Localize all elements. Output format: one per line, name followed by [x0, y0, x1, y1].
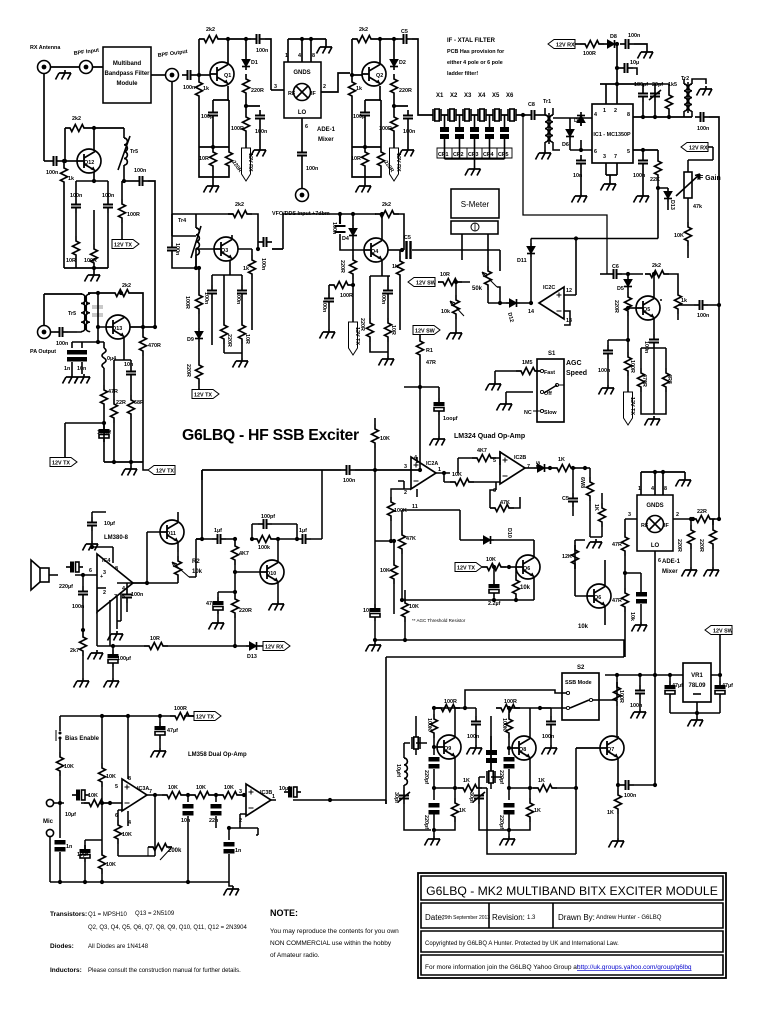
svg-text:D10: D10	[506, 528, 512, 538]
svg-text:100K: 100K	[501, 718, 507, 731]
svg-text:RF: RF	[641, 523, 649, 529]
input wire pin2 from bus	[97, 587, 106, 589]
svg-text:CP2: CP2	[453, 152, 464, 158]
svg-text:All Diodes are 1N4148: All Diodes are 1N4148	[88, 944, 149, 950]
svg-text:8: 8	[664, 486, 667, 492]
emitter caps 100n	[76, 179, 108, 199]
labels CP1-CP5	[437, 148, 512, 158]
svg-text:100k: 100k	[258, 545, 270, 551]
svg-text:100K: 100K	[426, 718, 432, 731]
svg-text:1n: 1n	[235, 848, 241, 854]
capacitor 100n	[51, 327, 77, 347]
multiband bandpass filter module	[103, 47, 151, 103]
svg-text:D11: D11	[517, 258, 527, 264]
svg-text:220R: 220R	[613, 300, 619, 313]
svg-text:VR1: VR1	[691, 673, 703, 679]
resistor 47R	[101, 368, 118, 462]
flag 12V RX	[681, 143, 713, 152]
wire IF takeoff	[523, 115, 607, 274]
svg-text:1K: 1K	[607, 810, 614, 816]
resistor 220R	[232, 594, 252, 646]
svg-text:RX Antenna: RX Antenna	[30, 45, 61, 51]
svg-text:1: 1	[438, 467, 441, 473]
ground	[631, 709, 647, 719]
svg-text:100R: 100R	[184, 296, 190, 309]
svg-text:Q6: Q6	[594, 595, 601, 601]
svg-text:100R: 100R	[444, 699, 457, 705]
svg-text:CP1: CP1	[438, 152, 449, 158]
resistor 220R	[365, 100, 395, 177]
emitter wire + 1K h	[509, 759, 576, 792]
svg-text:You may reproduce the contents: You may reproduce the contents for you o…	[270, 928, 399, 935]
svg-text:Q7: Q7	[607, 747, 614, 753]
flag 12V TX	[186, 712, 221, 721]
svg-text:6: 6	[305, 124, 308, 130]
capacitor C5	[562, 466, 578, 516]
trimmer 30pf	[468, 777, 509, 830]
svg-text:D1: D1	[251, 60, 258, 66]
S2 select wires	[465, 690, 566, 708]
svg-text:10K: 10K	[674, 233, 684, 239]
svg-text:220R: 220R	[251, 88, 264, 94]
capacitor 10k bars	[625, 573, 647, 622]
svg-text:50k: 50k	[472, 286, 483, 292]
resistor 220R	[243, 74, 264, 112]
ground	[399, 147, 415, 157]
svg-text:Inductors:: Inductors:	[50, 967, 82, 974]
svg-text:10R: 10R	[244, 334, 250, 344]
capacitor 100n	[695, 112, 719, 519]
capacitor 100n out	[124, 168, 155, 327]
resistor 220R	[213, 100, 243, 177]
capacitor 1uf right	[297, 470, 322, 544]
ground	[430, 436, 446, 446]
resistor 47R	[612, 532, 629, 588]
svg-text:Q12: Q12	[84, 160, 94, 166]
ground	[465, 166, 481, 176]
svg-text:1k: 1k	[68, 176, 74, 182]
node	[62, 160, 77, 162]
svg-text:100pf: 100pf	[261, 514, 275, 520]
svg-text:2k2: 2k2	[359, 27, 368, 33]
transistor Q11	[147, 512, 184, 552]
ground	[151, 748, 167, 758]
mixer pins 1 4 8	[285, 37, 326, 62]
wire	[51, 66, 79, 68]
ground	[542, 745, 558, 755]
capacitor 100uf	[108, 644, 131, 678]
capacitor 100n	[598, 340, 628, 385]
svg-text:100n: 100n	[380, 292, 386, 304]
resistor 6W8	[579, 468, 594, 537]
diode D6	[553, 112, 592, 150]
IC1 pins 1,2 up to rail	[600, 43, 640, 104]
svg-text:470R: 470R	[641, 374, 647, 387]
wire pin8 row	[633, 116, 692, 118]
svg-text:1M5: 1M5	[522, 360, 533, 366]
capacitor 22n	[209, 795, 222, 828]
svg-text:1: 1	[285, 53, 288, 59]
wire	[151, 74, 166, 76]
svg-text:10k: 10k	[629, 612, 635, 621]
svg-text:10k: 10k	[578, 624, 589, 630]
resistor 6W8 top wire	[575, 539, 585, 541]
svg-text:Mic: Mic	[43, 819, 54, 825]
svg-text:2k2: 2k2	[122, 283, 131, 289]
svg-text:Speed: Speed	[566, 370, 587, 377]
svg-text:Tr5: Tr5	[68, 311, 76, 317]
svg-text:78L09: 78L09	[688, 683, 706, 689]
caps 100n 100n	[203, 285, 217, 345]
svg-text:D13: D13	[247, 654, 257, 660]
diode D7	[566, 118, 592, 150]
resistor 100R	[170, 706, 194, 720]
svg-text:220R: 220R	[226, 334, 232, 347]
emitter wire + 1K h	[434, 758, 487, 792]
svg-text:D2: D2	[399, 60, 406, 66]
flag 12V TX	[192, 389, 219, 399]
flag 12V RX	[548, 40, 580, 49]
svg-text:2k2: 2k2	[206, 27, 215, 33]
base wire	[98, 293, 106, 342]
svg-text:100n: 100n	[331, 222, 337, 234]
svg-text:Mixer: Mixer	[662, 569, 678, 575]
svg-text:Q4: Q4	[371, 249, 378, 255]
svg-text:47µf: 47µf	[206, 601, 217, 607]
diode D8	[604, 34, 619, 48]
Q2 stage: capacitor in	[345, 73, 362, 75]
svg-text:10R: 10R	[390, 325, 396, 335]
svg-text:12V TX: 12V TX	[629, 397, 635, 415]
capacitor 10n	[573, 148, 586, 193]
IC1 MC1350P	[592, 104, 633, 163]
resistor 10K	[482, 557, 516, 571]
flag 12V TX	[455, 563, 482, 572]
flag 12V SW	[705, 626, 734, 678]
ground	[645, 416, 661, 426]
capacitor 100n pin bypass	[117, 583, 147, 612]
resistor 220R	[676, 525, 695, 567]
capacitor 100n	[620, 33, 647, 49]
resistor 220R	[391, 74, 412, 112]
capacitor 100n out	[620, 780, 657, 799]
svg-text:LM358 Dual Op-Amp: LM358 Dual Op-Amp	[188, 752, 247, 758]
10R rail to 12V RX	[97, 612, 246, 646]
svg-text:6: 6	[594, 149, 597, 155]
ground	[601, 181, 617, 191]
svg-text:4K7: 4K7	[239, 551, 249, 557]
capacitor 100n	[182, 70, 196, 91]
ground IC4	[88, 650, 104, 660]
resistor 2k2	[63, 116, 124, 163]
resistor 10K lower	[85, 803, 116, 882]
svg-text:GNDS: GNDS	[293, 70, 310, 76]
flag 12V RX	[260, 642, 290, 651]
resistor 100R	[231, 112, 250, 148]
resistor 10R	[199, 147, 229, 183]
svg-text:IF - XTAL FILTER: IF - XTAL FILTER	[447, 38, 496, 44]
svg-text:D13: D13	[669, 200, 675, 210]
svg-text:1K: 1K	[463, 778, 470, 784]
svg-text:Q9: Q9	[444, 746, 451, 752]
emitter chain	[114, 338, 131, 399]
svg-text:8: 8	[115, 566, 118, 572]
resistor 2k2	[375, 202, 404, 250]
diode D1	[242, 56, 258, 70]
svg-text:3: 3	[404, 464, 407, 470]
svg-text:220pf: 220pf	[498, 815, 504, 829]
svg-text:100n: 100n	[46, 170, 58, 176]
pot 200k	[118, 795, 182, 860]
transformer Tr5b	[68, 293, 90, 332]
svg-text:1ooµf: 1ooµf	[443, 416, 458, 422]
resistor 10K bias mid	[99, 714, 116, 805]
ground	[74, 678, 90, 688]
trimmer 20pf	[649, 82, 663, 117]
svg-text:20pf: 20pf	[652, 82, 663, 88]
svg-text:100p: 100p	[353, 114, 366, 120]
main audio bus y470	[196, 470, 420, 539]
svg-text:X2: X2	[450, 93, 458, 99]
top rail	[491, 708, 551, 771]
wire main bus y657	[386, 640, 624, 804]
svg-text:For more information join the: For more information join the G6LBQ Yaho…	[425, 964, 581, 971]
svg-text:10K: 10K	[64, 764, 74, 770]
wire output	[147, 794, 162, 796]
crystal X5	[492, 93, 501, 121]
ground	[676, 477, 692, 487]
svg-text:10K: 10K	[380, 436, 390, 442]
ground	[500, 836, 516, 846]
svg-text:X6: X6	[506, 93, 514, 99]
diode D5	[617, 276, 632, 292]
svg-text:PA Output: PA Output	[30, 349, 56, 355]
capacitor 1uf left	[196, 528, 237, 544]
ground	[233, 358, 249, 368]
caps 1n 10n	[64, 342, 98, 374]
svg-text:Bandpass Filter: Bandpass Filter	[104, 71, 150, 77]
svg-text:CP3: CP3	[468, 152, 479, 158]
wire collector	[380, 39, 381, 100]
ground	[366, 642, 382, 652]
svg-text:30pf: 30pf	[393, 792, 399, 803]
svg-text:X5: X5	[492, 93, 500, 99]
ground	[379, 356, 395, 366]
svg-text:10k: 10k	[441, 309, 450, 315]
audio wire joins bus	[385, 800, 387, 804]
svg-text:Bias Enable: Bias Enable	[65, 736, 100, 742]
resistor 100K (bias)	[426, 706, 449, 747]
diode D10	[460, 528, 534, 544]
svg-text:3: 3	[628, 512, 631, 518]
svg-text:C5: C5	[401, 29, 408, 35]
ground	[204, 183, 220, 193]
ground	[320, 329, 336, 339]
svg-text:100n: 100n	[256, 48, 268, 54]
crystal X4	[478, 93, 486, 121]
mixer2 IF wire	[673, 512, 693, 521]
speaker	[31, 560, 49, 590]
svg-text:Q8: Q8	[519, 747, 526, 753]
ground	[599, 385, 615, 395]
ground	[356, 183, 372, 193]
svg-text:AGC: AGC	[566, 360, 582, 367]
svg-text:S2: S2	[577, 665, 585, 671]
svg-text:6: 6	[658, 558, 661, 564]
capacitor 100n	[380, 285, 393, 318]
svg-text:4: 4	[594, 112, 597, 118]
capacitor 10uf	[363, 590, 380, 642]
op-amp IC3B	[239, 784, 275, 828]
transistor Q8	[507, 736, 536, 760]
resistor 2k2	[199, 27, 251, 75]
mixer2 pins 1 4 8	[638, 470, 685, 495]
ground	[108, 631, 124, 641]
resistor 47R lower	[612, 588, 629, 657]
svg-text:C8: C8	[528, 102, 535, 108]
ground	[632, 622, 648, 632]
svg-text:220pf: 220pf	[423, 770, 429, 784]
transistor Q5	[626, 296, 660, 320]
svg-text:12V TX: 12V TX	[457, 566, 475, 572]
svg-text:5: 5	[627, 149, 630, 155]
note IF-XTAL FILTER	[447, 38, 505, 77]
resistor 2k2	[88, 283, 134, 297]
capacitor 10pf block	[486, 750, 497, 763]
svg-text:RF: RF	[288, 91, 296, 97]
svg-text:LM324 Quad Op-Amp: LM324 Quad Op-Amp	[454, 433, 525, 440]
svg-text:220R: 220R	[239, 608, 252, 614]
svg-text:Q1 = MPSH10: Q1 = MPSH10	[88, 912, 128, 918]
svg-text:Diodes:: Diodes:	[50, 943, 74, 950]
resistor 2k2	[352, 27, 398, 75]
capacitor 100n out	[678, 300, 721, 319]
svg-text:LM380-8: LM380-8	[104, 535, 129, 541]
svg-text:Q6: Q6	[523, 566, 530, 572]
svg-text:100R: 100R	[340, 293, 353, 299]
capacitor 100n	[255, 110, 267, 147]
svg-text:10k: 10k	[192, 569, 203, 575]
capacitor 100n	[72, 586, 88, 632]
svg-text:1: 1	[638, 486, 641, 492]
ground	[638, 49, 654, 59]
wire RF in	[271, 89, 284, 91]
svg-text:10k: 10k	[520, 585, 531, 591]
capacitor 10uf in	[60, 790, 89, 818]
flag 12V RX	[242, 148, 254, 181]
electrolytic 100uf	[97, 425, 111, 442]
svg-text:S-Meter: S-Meter	[461, 200, 490, 209]
collector out + cap 100n	[232, 235, 283, 270]
svg-text:47µf: 47µf	[167, 728, 178, 734]
svg-text:10K: 10K	[380, 568, 390, 574]
svg-text:ADE-1: ADE-1	[317, 127, 336, 133]
resistor 470R	[638, 348, 655, 414]
svg-text:47µf: 47µf	[672, 683, 683, 689]
capacitor 100n in	[167, 82, 196, 268]
resistor 10K above IC2A	[372, 418, 390, 472]
capacitor 220pf lower	[423, 788, 440, 836]
svg-text:LO: LO	[651, 543, 660, 549]
svg-text:100n: 100n	[134, 168, 146, 174]
resistor 100k feedback	[250, 536, 299, 552]
transformer Tr1	[543, 99, 560, 150]
capacitor 100n	[46, 156, 62, 176]
crystal XT2	[479, 736, 502, 789]
output S3 diode	[525, 461, 552, 472]
svg-text:220R: 220R	[359, 318, 365, 331]
svg-text:4: 4	[122, 586, 125, 592]
svg-text:4: 4	[298, 53, 301, 59]
flag 12V TX	[50, 423, 104, 467]
svg-text:10R: 10R	[440, 272, 450, 278]
svg-text:100n: 100n	[70, 193, 82, 199]
capacitor 220pf lower	[498, 788, 515, 836]
resistor 10K	[444, 472, 496, 486]
transformer Tr2	[681, 76, 706, 117]
svg-text:IC2C: IC2C	[543, 285, 555, 291]
resistor 100R	[496, 699, 542, 712]
svg-text:Q3: Q3	[221, 248, 228, 254]
ground	[224, 886, 240, 896]
resistor 1K v	[509, 788, 541, 830]
svg-text:D4: D4	[342, 236, 349, 242]
wire bus left end	[201, 470, 203, 480]
resistor 100R Q7	[614, 682, 625, 736]
top rail	[416, 708, 476, 737]
svg-text:IF Gain: IF Gain	[697, 175, 721, 182]
svg-text:12V SW: 12V SW	[416, 281, 437, 287]
svg-text:220R: 220R	[185, 364, 191, 377]
svg-text:22R: 22R	[697, 509, 707, 515]
transistor Q12	[77, 149, 101, 173]
wire AGC bus	[531, 186, 660, 295]
resistor 2k2	[228, 202, 258, 249]
resistor 1K v	[434, 788, 466, 830]
svg-text:1K: 1K	[538, 778, 545, 784]
collector wire	[93, 128, 95, 181]
PA output connector	[30, 326, 56, 356]
svg-text:220µf: 220µf	[59, 584, 73, 590]
svg-text:100R: 100R	[583, 51, 596, 57]
resistor 100R	[436, 699, 467, 712]
resistor 1k	[349, 77, 366, 177]
wire from Q2 to filter	[418, 90, 433, 115]
svg-text:12V TX: 12V TX	[196, 715, 214, 721]
svg-text:10K: 10K	[196, 785, 206, 791]
svg-text:** AGC Threshold Resistor: ** AGC Threshold Resistor	[412, 618, 466, 623]
svg-text:100µf: 100µf	[117, 656, 131, 662]
capacitor 10n	[124, 362, 136, 395]
diode D2	[390, 56, 406, 70]
filter series wire	[441, 114, 526, 116]
resistor 100R	[625, 352, 636, 392]
resistor 220R	[698, 519, 717, 567]
top rail 12V TX	[60, 715, 186, 717]
svg-text:100K: 100K	[394, 508, 407, 514]
svg-text:of Amateur radio.: of Amateur radio.	[270, 952, 320, 959]
svg-text:4R3: 4R3	[666, 374, 672, 384]
transistor Q4	[364, 238, 388, 262]
capacitor 220pf upper	[423, 747, 440, 790]
svg-text:Q1: Q1	[224, 73, 231, 79]
grounds under caps	[63, 374, 79, 384]
svg-text:PCB Has provision for: PCB Has provision for	[447, 49, 505, 55]
svg-text:Module: Module	[117, 81, 139, 87]
svg-text:4K7: 4K7	[477, 448, 487, 454]
svg-text:100R: 100R	[629, 360, 635, 373]
NOTE block	[270, 908, 399, 959]
